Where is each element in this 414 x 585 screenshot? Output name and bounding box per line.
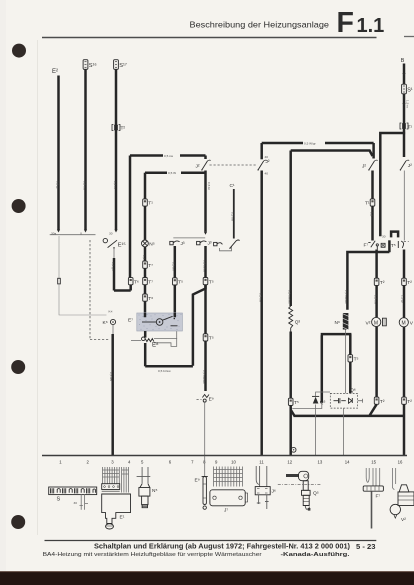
svg-text:T²: T²: [380, 399, 385, 405]
left leg of L1 down: [129, 156, 132, 278]
aux motor column x404: [403, 250, 406, 279]
main wire to lower fuse: [204, 285, 207, 334]
svg-text:0,5 ro: 0,5 ro: [113, 181, 117, 189]
svg-text:J²: J²: [362, 164, 366, 170]
svg-text:J²: J²: [196, 164, 200, 170]
svg-text:T⁵: T⁵: [209, 279, 214, 285]
connector marks on supply wire: [402, 73, 405, 76]
main wire from lamp to track 3: [111, 334, 114, 455]
wire from S16: [84, 70, 87, 230]
wire aux to track 16: [403, 404, 406, 455]
wire x290 to track 12: [289, 405, 292, 455]
right J relay column: [372, 143, 375, 159]
svg-text:5 - 23: 5 - 23: [356, 542, 375, 551]
thin stub diode to baseline: [315, 409, 317, 456]
L3 label: [303, 140, 325, 146]
svg-text:30: 30: [74, 501, 78, 505]
relay contact row c4: [230, 240, 239, 248]
svg-text:Schaltplan und Erklärung (ab A: Schaltplan und Erklärung (ab August 1972…: [94, 544, 350, 551]
box stub to resistor: [144, 331, 147, 338]
svg-text:V²: V²: [366, 321, 371, 327]
svg-text:S¹⁶: S¹⁶: [89, 62, 97, 69]
binder hole 3: [11, 360, 25, 374]
fuse box S: [49, 487, 97, 495]
svg-text:1,5: 1,5: [369, 212, 373, 217]
svg-text:T²: T²: [380, 280, 385, 286]
svg-text:Q⁵: Q⁵: [313, 491, 319, 497]
svg-text:-Kanada-Ausführg.: -Kanada-Ausführg.: [281, 552, 350, 558]
svg-text:0,5 bl: 0,5 bl: [207, 182, 211, 190]
fuse box tails: [80, 494, 89, 510]
svg-text:M: M: [374, 320, 378, 326]
svg-text:K⁶: K⁶: [103, 320, 108, 326]
fuse S15: [402, 84, 407, 94]
svg-text:16: 16: [398, 460, 403, 465]
bus bevel from x290: [291, 410, 295, 416]
diagonal into bus: [370, 404, 377, 416]
svg-text:0,5 br/sw: 0,5 br/sw: [158, 369, 171, 373]
cluster fuse column: [388, 240, 391, 252]
thin leads from relay box: [358, 399, 363, 403]
ignition switch E: [103, 467, 129, 493]
svg-text:15: 15: [371, 460, 376, 465]
svg-text:13: 13: [318, 460, 323, 465]
blower series resistor E8: [145, 339, 154, 342]
branch bevel to x193: [193, 285, 206, 366]
svg-text:J²: J²: [266, 159, 270, 165]
svg-text:B: B: [401, 58, 405, 64]
svg-text:0,5 sw: 0,5 sw: [82, 181, 86, 191]
fuse relay box J: [255, 466, 270, 509]
header rule right stub: [404, 36, 414, 38]
svg-text:M: M: [402, 321, 406, 327]
svg-text:T²: T²: [121, 126, 126, 132]
relay plate J: [214, 467, 243, 487]
thin link line between terminals: [50, 234, 96, 236]
thin feed line to warning lamp: [58, 236, 60, 278]
wire below aux motor: [403, 327, 406, 397]
connector T1 on supply wire: [400, 123, 408, 129]
relay contact J at x262: [260, 143, 263, 159]
wire from switch E15 down: [113, 249, 115, 258]
svg-text:1,5 gr: 1,5 gr: [401, 295, 405, 303]
bottom dark band: [0, 572, 414, 585]
binder hole 1: [12, 44, 26, 58]
fuse T in cluster: [381, 243, 385, 247]
svg-text:1,5 sw: 1,5 sw: [373, 295, 377, 305]
fresh air switch F: [366, 468, 380, 486]
svg-text:T¹: T¹: [408, 125, 413, 131]
svg-text:T⁵: T⁵: [209, 336, 214, 342]
wire below fuse to switch cluster: [371, 206, 374, 240]
main supply wire from B: [403, 64, 406, 134]
dashed line to lamp wire: [89, 240, 91, 339]
svg-text:T¹: T¹: [148, 201, 153, 207]
svg-text:T²: T²: [407, 399, 412, 405]
thin junction x321 to diode: [313, 404, 322, 409]
dashed relay link: [210, 164, 258, 166]
wire below N5 with fuse chain: [144, 247, 147, 313]
horizontal line L3: [262, 142, 374, 145]
svg-text:0,5 ws: 0,5 ws: [109, 372, 113, 381]
svg-text:K•l: K•l: [109, 310, 113, 314]
svg-text:Q³: Q³: [295, 320, 301, 326]
L2 label: [167, 170, 181, 176]
spark plug connector Q: [278, 471, 322, 510]
fuse T on J column: [370, 199, 375, 206]
svg-text:T⁷: T⁷: [148, 263, 153, 269]
thick elbow above cluster: [391, 232, 398, 238]
relay contact row c1: [170, 241, 173, 244]
elbow to fuse column: [114, 289, 131, 292]
thin jog c3 to c4: [220, 246, 232, 251]
current track baseline: [42, 455, 407, 457]
lamp N5 in feed wire: [144, 173, 147, 199]
svg-text:T⁷: T⁷: [148, 279, 153, 285]
svg-text:F: F: [337, 7, 354, 39]
thin link over contact row: [173, 237, 205, 239]
glow element Q heating squiggle: [289, 306, 293, 332]
thin lead arrow to box: [316, 392, 330, 396]
connector T2 on S17 wire: [112, 125, 120, 131]
svg-text:E²: E²: [52, 69, 58, 75]
fuse T on x130 column: [128, 278, 133, 285]
svg-text:Q⁶: Q⁶: [350, 388, 356, 394]
svg-text:30: 30: [382, 235, 386, 239]
svg-text:0,5 sw/ws: 0,5 sw/ws: [287, 290, 291, 304]
svg-text:T¹: T¹: [365, 201, 370, 207]
wire below c2: [204, 246, 207, 278]
aux motor V: [399, 318, 408, 327]
svg-text:J⁷: J⁷: [224, 508, 228, 514]
fuse T on x290: [288, 398, 293, 405]
blower feed column: [375, 250, 378, 279]
svg-text:10: 10: [231, 460, 236, 465]
relay contact J right: [400, 160, 410, 171]
fuse S17: [114, 60, 119, 70]
svg-text:C¹: C¹: [230, 183, 235, 189]
supply stub below jog: [403, 133, 406, 157]
svg-text:S¹: S¹: [407, 88, 413, 94]
svg-text:1,5 sw/ws: 1,5 sw/ws: [344, 290, 348, 304]
svg-text:N⁵: N⁵: [149, 242, 154, 248]
heater blower V: [390, 468, 414, 518]
svg-text:0,5 bl/sw: 0,5 bl/sw: [202, 260, 206, 273]
fuse T aux column: [402, 278, 407, 285]
cigarette lighter N: [137, 467, 151, 508]
L1 label: [163, 152, 180, 158]
relay box Q dashed: [330, 393, 357, 408]
horizontal line L4: [291, 151, 373, 157]
fuse T blower feed: [374, 278, 379, 285]
svg-text:Q⁵: Q⁵: [320, 400, 326, 406]
svg-text:T⁵: T⁵: [391, 243, 396, 249]
thin loop resistor to box: [154, 331, 177, 338]
svg-text:30: 30: [109, 232, 113, 236]
svg-text:0,5 sw: 0,5 sw: [164, 154, 174, 158]
fuse T on link: [348, 355, 353, 362]
thin stub left of resistor: [131, 340, 141, 342]
ignition coil N feed: [347, 252, 389, 310]
thin link x290 to diode: [292, 408, 313, 410]
svg-text:J⁶: J⁶: [272, 489, 276, 495]
fuse T on c2 wire: [203, 278, 208, 285]
thin stub box bottom to baseline: [342, 408, 344, 455]
blower motor V2: [372, 317, 381, 326]
binder hole 2: [12, 199, 26, 213]
warning lamp K6: [110, 319, 115, 324]
wire below contact to fuse T: [371, 171, 374, 200]
fan switch box E7 shaded: [137, 313, 183, 331]
sensor E below track 8: [202, 477, 208, 510]
footer rule: [45, 540, 377, 542]
faint left margin scan line: [37, 40, 39, 535]
svg-text:J³: J³: [208, 241, 212, 247]
fuse T7c: [143, 294, 148, 301]
svg-text:T²: T²: [407, 280, 412, 286]
svg-text:T⁵: T⁵: [178, 280, 183, 286]
svg-text:E¹: E¹: [120, 515, 125, 521]
wire below c1: [174, 246, 177, 278]
horizontal line L1: [130, 154, 206, 157]
svg-text:F⁷: F⁷: [364, 243, 369, 249]
svg-text:14: 14: [345, 460, 350, 465]
temperature sensor E9: [202, 395, 209, 398]
svg-text:0,5 sw: 0,5 sw: [231, 212, 235, 222]
thin wire below right contact: [403, 171, 405, 241]
wire x290 with glow element Q: [289, 151, 292, 307]
diode unit Q arrow: [313, 397, 319, 404]
header rule: [42, 37, 377, 39]
svg-text:0,5 sw: 0,5 sw: [258, 293, 262, 303]
svg-text:0,5 W: 0,5 W: [168, 171, 176, 175]
svg-text:12: 12: [287, 460, 292, 465]
fuse T7a: [143, 261, 148, 268]
svg-text:J²: J²: [408, 163, 412, 169]
relay contact row c2: [197, 241, 200, 244]
wire resistor down and elbow to x193: [144, 343, 147, 366]
fuse T7b: [143, 278, 148, 285]
svg-text:E⁷: E⁷: [128, 318, 133, 324]
track numbers: [59, 460, 403, 465]
svg-text:E¹⁵: E¹⁵: [118, 242, 126, 249]
heater switch E15: [103, 238, 107, 242]
svg-text:T⁵: T⁵: [294, 400, 299, 406]
svg-text:S: S: [57, 497, 61, 503]
svg-text:F⁷: F⁷: [376, 494, 381, 500]
relay contact J2: [368, 160, 378, 171]
fuse S16: [83, 60, 88, 70]
ground bus: [294, 415, 405, 418]
screw terminal: [291, 447, 296, 452]
fuse T lower on c2 wire: [203, 334, 208, 341]
svg-text:0,5 sw/ws: 0,5 sw/ws: [202, 370, 206, 384]
svg-text:T⁶: T⁶: [148, 296, 153, 302]
svg-text:E⁹: E⁹: [195, 478, 200, 484]
ignition coil N: [343, 313, 349, 330]
svg-text:T⁵: T⁵: [354, 357, 359, 363]
fuse T below motor: [374, 397, 379, 404]
fuse T aux lower: [402, 397, 407, 404]
relay contact J1 mid: [204, 156, 207, 160]
svg-text:0,5 gn: 0,5 gn: [111, 262, 115, 271]
svg-text:T⁶: T⁶: [134, 279, 139, 285]
svg-text:1,5 ro: 1,5 ro: [406, 100, 410, 108]
thin wire sensor to baseline: [204, 402, 206, 455]
relay contact row c3: [214, 242, 217, 245]
svg-text:E⁹: E⁹: [209, 397, 214, 403]
sensor lead below baseline: [204, 456, 206, 476]
wire below contact J1 to terminal: [204, 171, 207, 232]
svg-text:S¹⁷: S¹⁷: [119, 62, 127, 69]
inverted U link: [321, 334, 352, 403]
horizontal line L2: [145, 171, 206, 174]
svg-text:N⁶: N⁶: [335, 320, 340, 326]
thin wire coil to relay box: [345, 330, 347, 394]
wire below glow element: [289, 332, 292, 399]
svg-text:1.1: 1.1: [357, 15, 385, 37]
fuse T on c1 wire: [173, 278, 178, 285]
svg-text:0,5 W/gr: 0,5 W/gr: [304, 142, 316, 146]
dashed aux component right: [398, 241, 403, 248]
svg-text:J³: J³: [181, 241, 185, 247]
svg-text:N⁵: N⁵: [152, 488, 157, 494]
supply jog to x380: [380, 133, 405, 236]
svg-text:Beschreibung der Heizungsanlag: Beschreibung der Heizungsanlage: [190, 20, 330, 30]
wire stubs into box: [145, 313, 175, 317]
svg-text:0,5 bn: 0,5 bn: [172, 262, 176, 271]
binder hole 4: [11, 515, 25, 529]
svg-text:40: 40: [265, 155, 269, 159]
svg-text:0,5 gr: 0,5 gr: [55, 181, 59, 189]
wire from S17: [115, 70, 118, 230]
wire below motor V2: [375, 327, 378, 398]
svg-text:40: 40: [265, 172, 269, 176]
svg-text:BA4-Heizung mit verstärktem He: BA4-Heizung mit verstärktem Heizluftgebl…: [43, 552, 262, 558]
svg-text:V²: V²: [401, 517, 406, 523]
svg-text:11: 11: [259, 460, 264, 465]
long wire x262 to track 11: [260, 171, 263, 456]
